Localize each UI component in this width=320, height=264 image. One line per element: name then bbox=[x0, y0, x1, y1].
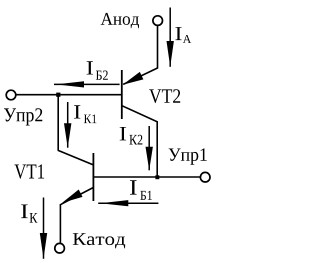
wire VT1 emitter segment bbox=[61, 188, 94, 205]
junction dot left bbox=[56, 93, 60, 97]
wire VT1 base to Упр1 bbox=[94, 176, 201, 178]
terminal cathode circle bbox=[55, 243, 65, 253]
current arrow IБ2 bbox=[54, 81, 120, 87]
label Анод bbox=[101, 13, 139, 28]
label IК bbox=[21, 205, 28, 219]
label IБ1 bbox=[130, 180, 137, 194]
label IК2 bbox=[120, 127, 126, 140]
label IК1 bbox=[74, 105, 80, 118]
junction dot right bbox=[155, 175, 159, 179]
terminal Упр1 circle bbox=[200, 172, 210, 182]
wire VT2 emitter segment bbox=[123, 68, 157, 84]
arrowhead VT2 emitter bbox=[123, 72, 144, 85]
terminal Упр2 circle bbox=[6, 90, 16, 100]
wire anode vertical bbox=[157, 26, 159, 69]
label IБ2 bbox=[87, 61, 93, 74]
label Упр2 bbox=[4, 108, 42, 125]
current arrow IК2 bbox=[146, 126, 153, 170]
current arrow IК1 bbox=[64, 102, 71, 148]
label Катод bbox=[73, 233, 125, 248]
current arrow IA bbox=[167, 8, 174, 67]
wire VT1 collector angled bbox=[58, 150, 94, 165]
wire Упр2 horizontal bbox=[16, 94, 122, 96]
current arrow IБ1 bbox=[98, 200, 158, 206]
wire VT2 collector bbox=[122, 106, 157, 177]
transistor VT1 base bar bbox=[92, 153, 94, 201]
current arrow IК bbox=[40, 198, 47, 259]
transistor VT2 base bar bbox=[121, 70, 123, 119]
label Упр1 bbox=[169, 148, 207, 164]
label VT2 bbox=[149, 89, 180, 103]
wire left vertical bbox=[57, 95, 59, 151]
wire cathode vertical bbox=[59, 204, 61, 243]
label VT1 bbox=[14, 164, 44, 178]
arrowhead VT1 emitter bbox=[62, 190, 83, 203]
terminal anode circle bbox=[153, 16, 163, 26]
label IA bbox=[175, 27, 181, 40]
